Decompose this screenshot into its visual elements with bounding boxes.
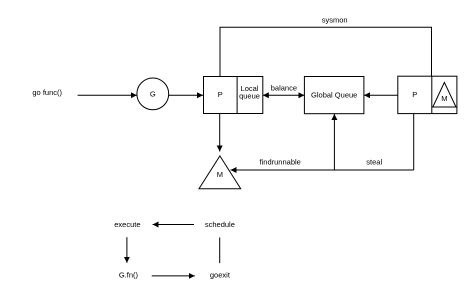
svg-text:execute: execute <box>114 220 140 229</box>
svg-text:balance: balance <box>271 84 297 93</box>
svg-text:steal: steal <box>366 158 382 167</box>
svg-text:M: M <box>441 94 447 103</box>
svg-text:goexit: goexit <box>210 271 231 280</box>
svg-text:queue: queue <box>239 92 260 101</box>
svg-text:schedule: schedule <box>205 220 235 229</box>
svg-text:Global Queue: Global Queue <box>311 91 357 100</box>
svg-text:G.fn(): G.fn() <box>119 271 139 280</box>
svg-text:findrunnable: findrunnable <box>260 158 301 167</box>
svg-text:P: P <box>218 90 223 99</box>
svg-text:G: G <box>150 90 156 99</box>
svg-text:P: P <box>412 90 417 99</box>
svg-text:M: M <box>217 170 223 179</box>
svg-text:go func(): go func() <box>32 88 62 97</box>
svg-text:sysmon: sysmon <box>322 15 348 24</box>
